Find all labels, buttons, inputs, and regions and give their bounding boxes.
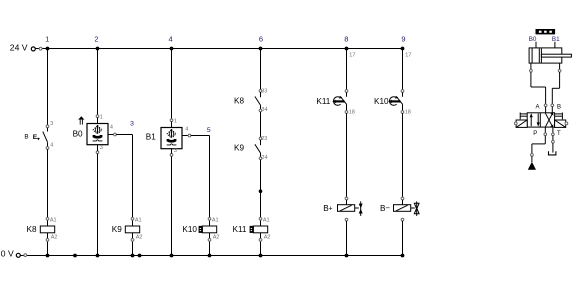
svg-text:K11: K11 [316,97,330,106]
svg-text:T: T [557,131,561,137]
svg-text:K10: K10 [374,97,389,106]
svg-text:3: 3 [100,145,103,151]
svg-text:34: 34 [261,107,267,113]
svg-text:17: 17 [405,53,411,59]
svg-text:9: 9 [401,35,405,44]
svg-text:4: 4 [185,126,188,132]
svg-text:E: E [33,134,38,141]
svg-text:A1: A1 [263,218,270,224]
svg-text:1: 1 [45,35,49,44]
svg-text:24 V: 24 V [10,42,28,52]
svg-text:5: 5 [207,127,211,134]
svg-text:A1: A1 [135,218,142,224]
svg-text:K8: K8 [27,225,37,234]
svg-text:1: 1 [174,119,177,125]
svg-text:23: 23 [261,136,267,142]
svg-text:+: + [329,206,333,213]
svg-text:A: A [536,105,540,111]
svg-text:P: P [533,131,537,137]
svg-text:33: 33 [261,89,267,95]
svg-text:K9: K9 [234,143,244,152]
svg-text:B1: B1 [146,132,156,141]
svg-text:8: 8 [344,35,348,44]
svg-text:4: 4 [110,125,113,131]
svg-text:6: 6 [259,35,263,44]
svg-text:K9: K9 [112,225,122,234]
svg-text:24: 24 [261,155,267,161]
svg-text:3: 3 [174,148,177,154]
svg-text:18: 18 [405,109,411,115]
svg-text:B1: B1 [552,36,560,43]
svg-text:B: B [24,134,28,141]
svg-text:A1: A1 [212,218,219,224]
svg-text:A1: A1 [50,218,57,224]
svg-text:4: 4 [169,35,173,44]
svg-text:K8: K8 [234,97,244,106]
svg-text:2: 2 [94,35,98,44]
svg-text:4: 4 [50,143,53,149]
svg-text:17: 17 [349,53,355,59]
svg-text:A2: A2 [264,234,271,240]
svg-text:K11: K11 [233,225,247,234]
svg-text:3: 3 [50,121,53,127]
svg-text:B: B [557,105,561,111]
svg-text:0 V: 0 V [1,248,14,258]
svg-text:18: 18 [349,109,355,115]
svg-text:1: 1 [100,115,103,121]
svg-text:−: − [385,204,390,213]
svg-text:3: 3 [130,121,134,128]
svg-text:A2: A2 [213,234,220,240]
svg-text:K10: K10 [182,225,197,234]
svg-text:A2: A2 [51,234,58,240]
svg-text:A2: A2 [136,234,143,240]
svg-text:B0: B0 [73,129,83,138]
